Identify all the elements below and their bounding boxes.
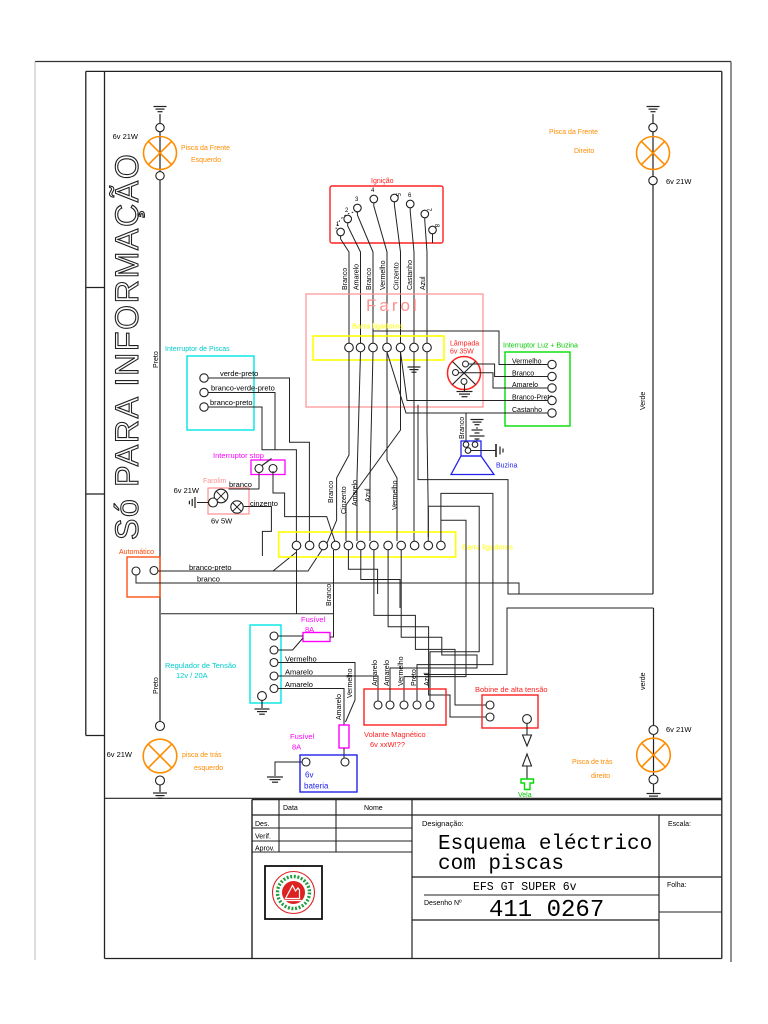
svg-text:6v 21W: 6v 21W: [113, 132, 139, 141]
svg-text:esquerdo: esquerdo: [194, 765, 223, 772]
svg-text:Fusível: Fusível: [290, 732, 315, 741]
svg-text:Vermelho: Vermelho: [380, 260, 387, 290]
svg-text:branco: branco: [197, 575, 220, 584]
svg-text:Farolim: Farolim: [203, 478, 227, 485]
svg-text:branco-preto: branco-preto: [210, 398, 253, 407]
svg-text:Amarelo: Amarelo: [384, 660, 391, 686]
svg-text:Azul: Azul: [424, 672, 431, 686]
svg-text:Esquerdo: Esquerdo: [191, 157, 221, 164]
svg-text:bateria: bateria: [304, 782, 329, 791]
svg-text:Amarelo: Amarelo: [352, 480, 359, 506]
svg-text:Automático: Automático: [119, 549, 154, 556]
svg-text:Cinzento: Cinzento: [394, 262, 401, 290]
svg-text:Designação:: Designação:: [422, 819, 464, 828]
svg-text:Amarelo: Amarelo: [372, 660, 379, 686]
svg-text:Desenho Nº: Desenho Nº: [424, 900, 462, 907]
svg-text:Branco: Branco: [328, 481, 335, 503]
svg-text:Amarelo: Amarelo: [285, 680, 313, 689]
svg-text:6v 5W: 6v 5W: [211, 517, 233, 526]
svg-text:verde: verde: [640, 672, 647, 690]
svg-text:6v 21W: 6v 21W: [666, 725, 692, 734]
svg-text:6v xxW!??: 6v xxW!??: [370, 740, 405, 749]
svg-text:Vermelho: Vermelho: [347, 668, 354, 698]
svg-text:Castanho: Castanho: [407, 260, 414, 290]
svg-text:Verif.: Verif.: [255, 834, 271, 841]
svg-text:Vermelho: Vermelho: [392, 480, 399, 510]
svg-text:Nome: Nome: [364, 805, 383, 812]
svg-text:Vermelho: Vermelho: [398, 656, 405, 686]
svg-text:Branco: Branco: [342, 268, 349, 290]
svg-text:Buzina: Buzina: [496, 463, 518, 470]
svg-text:8A: 8A: [292, 743, 301, 752]
svg-text:6v 21W: 6v 21W: [666, 177, 692, 186]
svg-text:Branco: Branco: [326, 584, 333, 606]
svg-text:Pisca de trás: Pisca de trás: [572, 759, 613, 766]
svg-text:Data: Data: [283, 805, 298, 812]
svg-text:Barra ligadores: Barra ligadores: [352, 322, 403, 331]
svg-text:pisca de trás: pisca de trás: [182, 752, 222, 759]
svg-text:Amarelo: Amarelo: [336, 694, 343, 720]
svg-text:Des.: Des.: [255, 821, 269, 828]
svg-text:Branco: Branco: [366, 268, 373, 290]
svg-text:Azul: Azul: [365, 488, 372, 502]
svg-text:Escala:: Escala:: [668, 821, 691, 828]
svg-text:Amarelo: Amarelo: [354, 264, 361, 290]
svg-text:Amarelo: Amarelo: [285, 668, 313, 677]
svg-text:6v: 6v: [305, 771, 313, 780]
svg-text:Fusível: Fusível: [301, 615, 326, 624]
svg-text:EFS GT SUPER 6v: EFS GT SUPER 6v: [473, 881, 577, 894]
svg-text:Cinzento: Cinzento: [341, 486, 348, 514]
svg-text:6v 21W: 6v 21W: [174, 486, 200, 495]
svg-text:Interruptor de Piscas: Interruptor de Piscas: [165, 346, 230, 353]
svg-text:Regulador de Tensão: Regulador de Tensão: [165, 661, 236, 670]
svg-text:Farol: Farol: [366, 296, 420, 315]
svg-text:12v / 20A: 12v / 20A: [176, 671, 208, 680]
svg-text:Só PARA INFORMAÇÃO: Só PARA INFORMAÇÃO: [109, 153, 145, 540]
svg-text:branco-verde-preto: branco-verde-preto: [211, 384, 275, 393]
svg-text:6v 21W: 6v 21W: [107, 750, 133, 759]
svg-text:Interruptor stop: Interruptor stop: [213, 451, 264, 460]
svg-text:Preto: Preto: [153, 677, 160, 694]
svg-text:branco: branco: [229, 480, 252, 489]
svg-text:Preto: Preto: [153, 351, 160, 368]
svg-text:com piscas: com piscas: [438, 853, 564, 876]
svg-text:Folha:: Folha:: [667, 882, 687, 889]
svg-text:411 0267: 411 0267: [489, 897, 604, 924]
svg-text:direito: direito: [591, 773, 610, 780]
svg-text:Direito: Direito: [574, 148, 594, 155]
svg-text:6v 35W: 6v 35W: [450, 349, 474, 356]
svg-text:Interruptor Luz + Buzina: Interruptor Luz + Buzina: [503, 343, 578, 350]
svg-text:Ignição: Ignição: [371, 178, 394, 185]
svg-text:Pisca da Frente: Pisca da Frente: [181, 145, 230, 152]
svg-text:Preto: Preto: [411, 669, 418, 686]
svg-text:Volante Magnético: Volante Magnético: [364, 730, 426, 739]
svg-text:verde-preto: verde-preto: [220, 369, 258, 378]
svg-text:Lâmpada: Lâmpada: [450, 341, 479, 348]
svg-text:Aprov.: Aprov.: [255, 846, 275, 853]
svg-text:Pisca da Frente: Pisca da Frente: [549, 129, 598, 136]
svg-text:Branco: Branco: [459, 417, 466, 439]
svg-text:Azul: Azul: [420, 276, 427, 290]
svg-text:Bobine de alta tensão: Bobine de alta tensão: [475, 685, 548, 694]
svg-text:Barra ligadores: Barra ligadores: [462, 543, 513, 552]
svg-text:Verde: Verde: [640, 392, 647, 410]
